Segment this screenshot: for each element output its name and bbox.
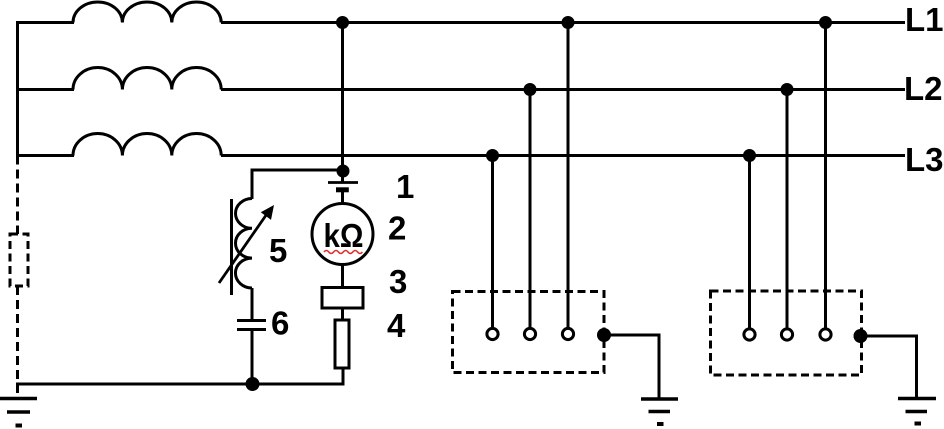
wire L3 main line [221,154,905,157]
wire middle vertical from L1 [341,23,344,184]
inductor on line L3 [73,134,221,156]
wire coil to capacitor 6 [251,288,254,321]
ground box1 [641,399,678,424]
ground box2 [898,399,936,424]
wire left vertical bus [16,21,19,157]
svg-text:2: 2 [388,210,406,247]
box1 terminal b [524,328,535,339]
box2 terminal a [744,329,755,340]
wire dashed earth lead upper [16,156,19,235]
spark gap 1 lower bar [336,187,349,192]
wire element 3 to resistor 4 [341,308,344,320]
node on L3 box2 [743,149,756,162]
svg-text:1: 1 [396,168,414,205]
wire box2 lead b (to L2) [786,90,789,330]
box2 terminal c [820,329,831,340]
node on L1 box1 [562,16,575,29]
wire box1 lead c (to L1) [567,23,570,329]
wire L1 left stub [16,21,74,24]
wire box1 lead b (to L2) [529,90,532,329]
wire bottom rail [16,383,345,386]
svg-text:5: 5 [269,232,287,269]
ground left [0,399,37,426]
box2 terminal b [781,329,792,340]
svg-text:4: 4 [387,307,406,344]
inductor on line L1 [73,2,221,23]
wire top of coil branch [251,169,254,200]
box1 terminal c [562,328,573,339]
capacitor 6 bottom plate [237,328,266,331]
wire box2 to ground [861,336,917,399]
variable inductor 5 core bar [230,199,233,295]
inductor on line L2 [73,68,221,90]
node box1 earth [597,328,611,342]
wire L2 main line [221,88,905,91]
spark gap 1 upper plate [328,181,358,184]
node on L2 box1 [524,83,537,96]
variable inductor 5 arrow [219,205,274,283]
variable inductor 5 coil [235,198,252,288]
earth electrode dashed box [10,234,28,286]
svg-text:L3: L3 [905,141,944,178]
svg-text:kΩ: kΩ [324,217,364,254]
node on bottom rail [246,377,260,391]
wire L3 left stub [16,154,74,157]
wire box2 lead a (to L3) [748,156,751,330]
wire L1 main line [221,21,905,24]
node box2 earth [854,329,868,343]
resistor 4 [335,320,349,368]
node on L2 box2 [781,83,794,96]
wire branch to tuning coil [252,169,343,172]
wire gap to meter [341,192,344,205]
svg-text:3: 3 [389,263,407,300]
element 3 box [322,288,363,309]
wire L2 left stub [16,88,74,91]
wire resistor 4 to bottom rail [342,368,345,385]
node on L3 box1 [486,149,499,162]
spellcheck squiggle under kΩ [324,251,362,254]
wire box1 to ground [604,335,659,400]
svg-text:L1: L1 [905,1,944,38]
consumer box 1 dashed outline [453,292,605,373]
capacitor 6 top plate [237,319,266,322]
wire capacitor 6 to bottom rail [251,330,254,385]
wire box1 lead a (to L3) [491,156,494,329]
consumer box 2 dashed outline [711,291,862,375]
node on L1 box2 [819,16,832,29]
svg-text:6: 6 [271,305,289,342]
meter 2 circle [312,204,373,265]
svg-text:L2: L2 [904,70,943,107]
wire meter to element 3 [341,265,344,289]
node junction below L3 [337,165,350,178]
wire box2 lead c (to L1) [824,23,827,330]
box1 terminal a [487,328,498,339]
node on L1 at middle branch [336,16,349,29]
wire dashed earth lead lower [16,286,19,397]
